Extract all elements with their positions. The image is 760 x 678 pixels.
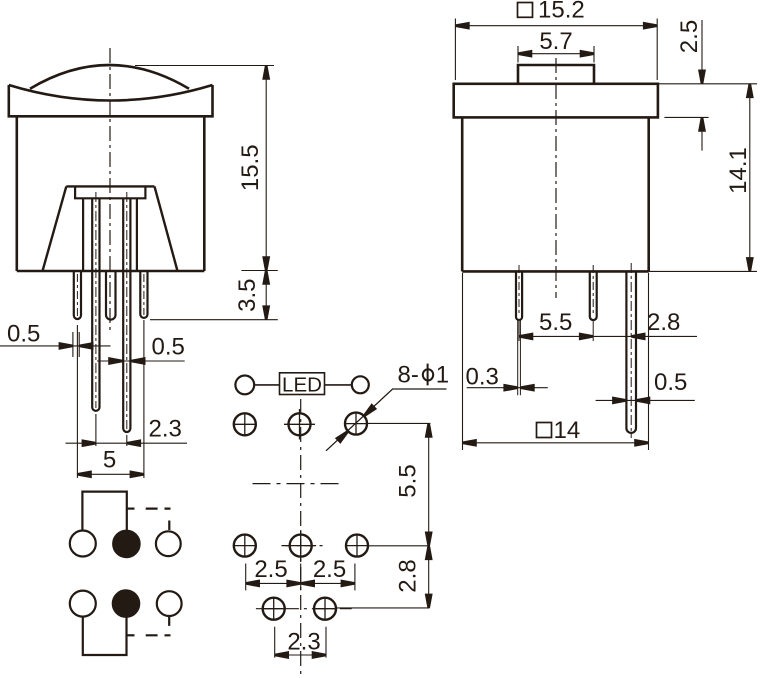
pin D centerline [126, 192, 128, 429]
pin D extension line [126, 435, 128, 446]
pin A extension line [76, 325, 78, 478]
svg-text:3.5: 3.5 [234, 279, 261, 312]
svg-text:0.5: 0.5 [7, 321, 40, 348]
svg-text:2.5: 2.5 [313, 556, 346, 583]
dimension 3.5 [150, 271, 278, 320]
hole row2 middle [285, 530, 316, 561]
hole row1 left [233, 413, 256, 436]
extension row3 right [336, 607, 429, 609]
pin A centerline [76, 274, 78, 316]
pin right centerline [630, 263, 632, 438]
switch pin C (front middle) [106, 271, 116, 320]
svg-text:15.2: 15.2 [538, 0, 585, 24]
svg-text:15.5: 15.5 [237, 144, 264, 191]
centerline side view [555, 58, 557, 298]
pin B centerline [95, 192, 97, 408]
svg-text:14: 14 [554, 417, 581, 444]
hole row2 right [346, 534, 369, 557]
footprint center cross horizontal [253, 483, 342, 485]
contact circle bottom-middle (common, filled) [113, 590, 139, 616]
svg-text:2.3: 2.3 [149, 416, 182, 443]
svg-text:2.5: 2.5 [676, 20, 703, 53]
footprint row2 horizontal centerline [282, 545, 323, 547]
extension row2 right [368, 545, 429, 547]
case body side [462, 117, 649, 271]
wire top bracket [82, 492, 126, 532]
svg-text:0.5: 0.5 [654, 369, 687, 396]
cap collar concave top arc [9, 85, 213, 101]
wire stub bottom [127, 634, 135, 636]
contact circle top-left [70, 531, 96, 557]
extension row1 right [367, 422, 430, 424]
footprint vertical centerline [300, 399, 302, 676]
case body front [17, 116, 205, 271]
svg-text:1: 1 [436, 362, 449, 389]
switch pin A (front) [74, 271, 81, 319]
LED label box [280, 373, 325, 395]
contact circle bottom-right [157, 591, 182, 616]
LED pin D (front, long) [123, 198, 130, 432]
side pin left [516, 271, 522, 320]
pin middle centerline extension [592, 265, 594, 316]
wire to LED box [254, 384, 279, 386]
side pin middle [590, 271, 597, 320]
LED pin B (front, long) [92, 198, 99, 411]
svg-text:5: 5 [103, 447, 116, 474]
dimension square14 [537, 423, 552, 438]
svg-text:2.8: 2.8 [395, 559, 422, 592]
pin E extension line [143, 320, 145, 478]
button dome lens arc [30, 65, 189, 89]
pin E centerline [143, 274, 145, 315]
wire stub top [127, 508, 135, 510]
contact circle top-right [156, 531, 181, 556]
pin B extension line [95, 414, 97, 446]
bezel [454, 84, 658, 118]
svg-text:8-: 8- [398, 362, 419, 389]
contact circle bottom-left [70, 591, 96, 617]
hole row3 left [262, 597, 285, 620]
svg-text:2.5: 2.5 [254, 556, 287, 583]
svg-text:0.5: 0.5 [152, 334, 185, 361]
wire from LED box [325, 384, 352, 386]
pin left 0.3 extension lines [518, 320, 521, 395]
SCHEMATIC [70, 492, 182, 655]
cap collar sides and bottom [9, 85, 213, 116]
wire bottom bracket [83, 617, 127, 655]
centerline front view [109, 48, 111, 332]
LED hole left [235, 376, 254, 395]
button top [518, 65, 594, 84]
dashed wire bottom [146, 616, 171, 635]
dashed wire top [146, 509, 171, 530]
svg-text:5.5: 5.5 [395, 464, 422, 497]
inner walls [83, 198, 137, 271]
dimension 2.8 footprint [428, 546, 430, 608]
svg-text:LED: LED [282, 374, 322, 397]
dimension 5.5 footprint [428, 423, 430, 545]
hole row3 right [314, 597, 337, 620]
svg-text:14.1: 14.1 [725, 147, 752, 194]
contact circle top-middle (common, filled) [113, 531, 139, 557]
LED hole right [352, 376, 369, 393]
pin left centerline [518, 265, 520, 316]
svg-text:2.8: 2.8 [647, 309, 680, 336]
stem rectangle [75, 186, 145, 198]
svg-text:5.7: 5.7 [539, 28, 572, 55]
svg-text:5.5: 5.5 [539, 309, 572, 336]
plunger housing trapezoid [43, 186, 178, 271]
hole row1 right [345, 412, 368, 435]
side pin right (LED pin, long) [626, 271, 636, 433]
footprint row3 horizontal centerline [256, 608, 352, 610]
svg-text:2.3: 2.3 [287, 629, 320, 656]
svg-text:0.3: 0.3 [466, 364, 499, 391]
switch pin E (front) [140, 271, 147, 318]
dimension 15.5 [135, 66, 278, 271]
hole row1 middle [284, 409, 315, 440]
hole row2 left [233, 534, 256, 557]
dimension square15.2 [518, 3, 533, 18]
